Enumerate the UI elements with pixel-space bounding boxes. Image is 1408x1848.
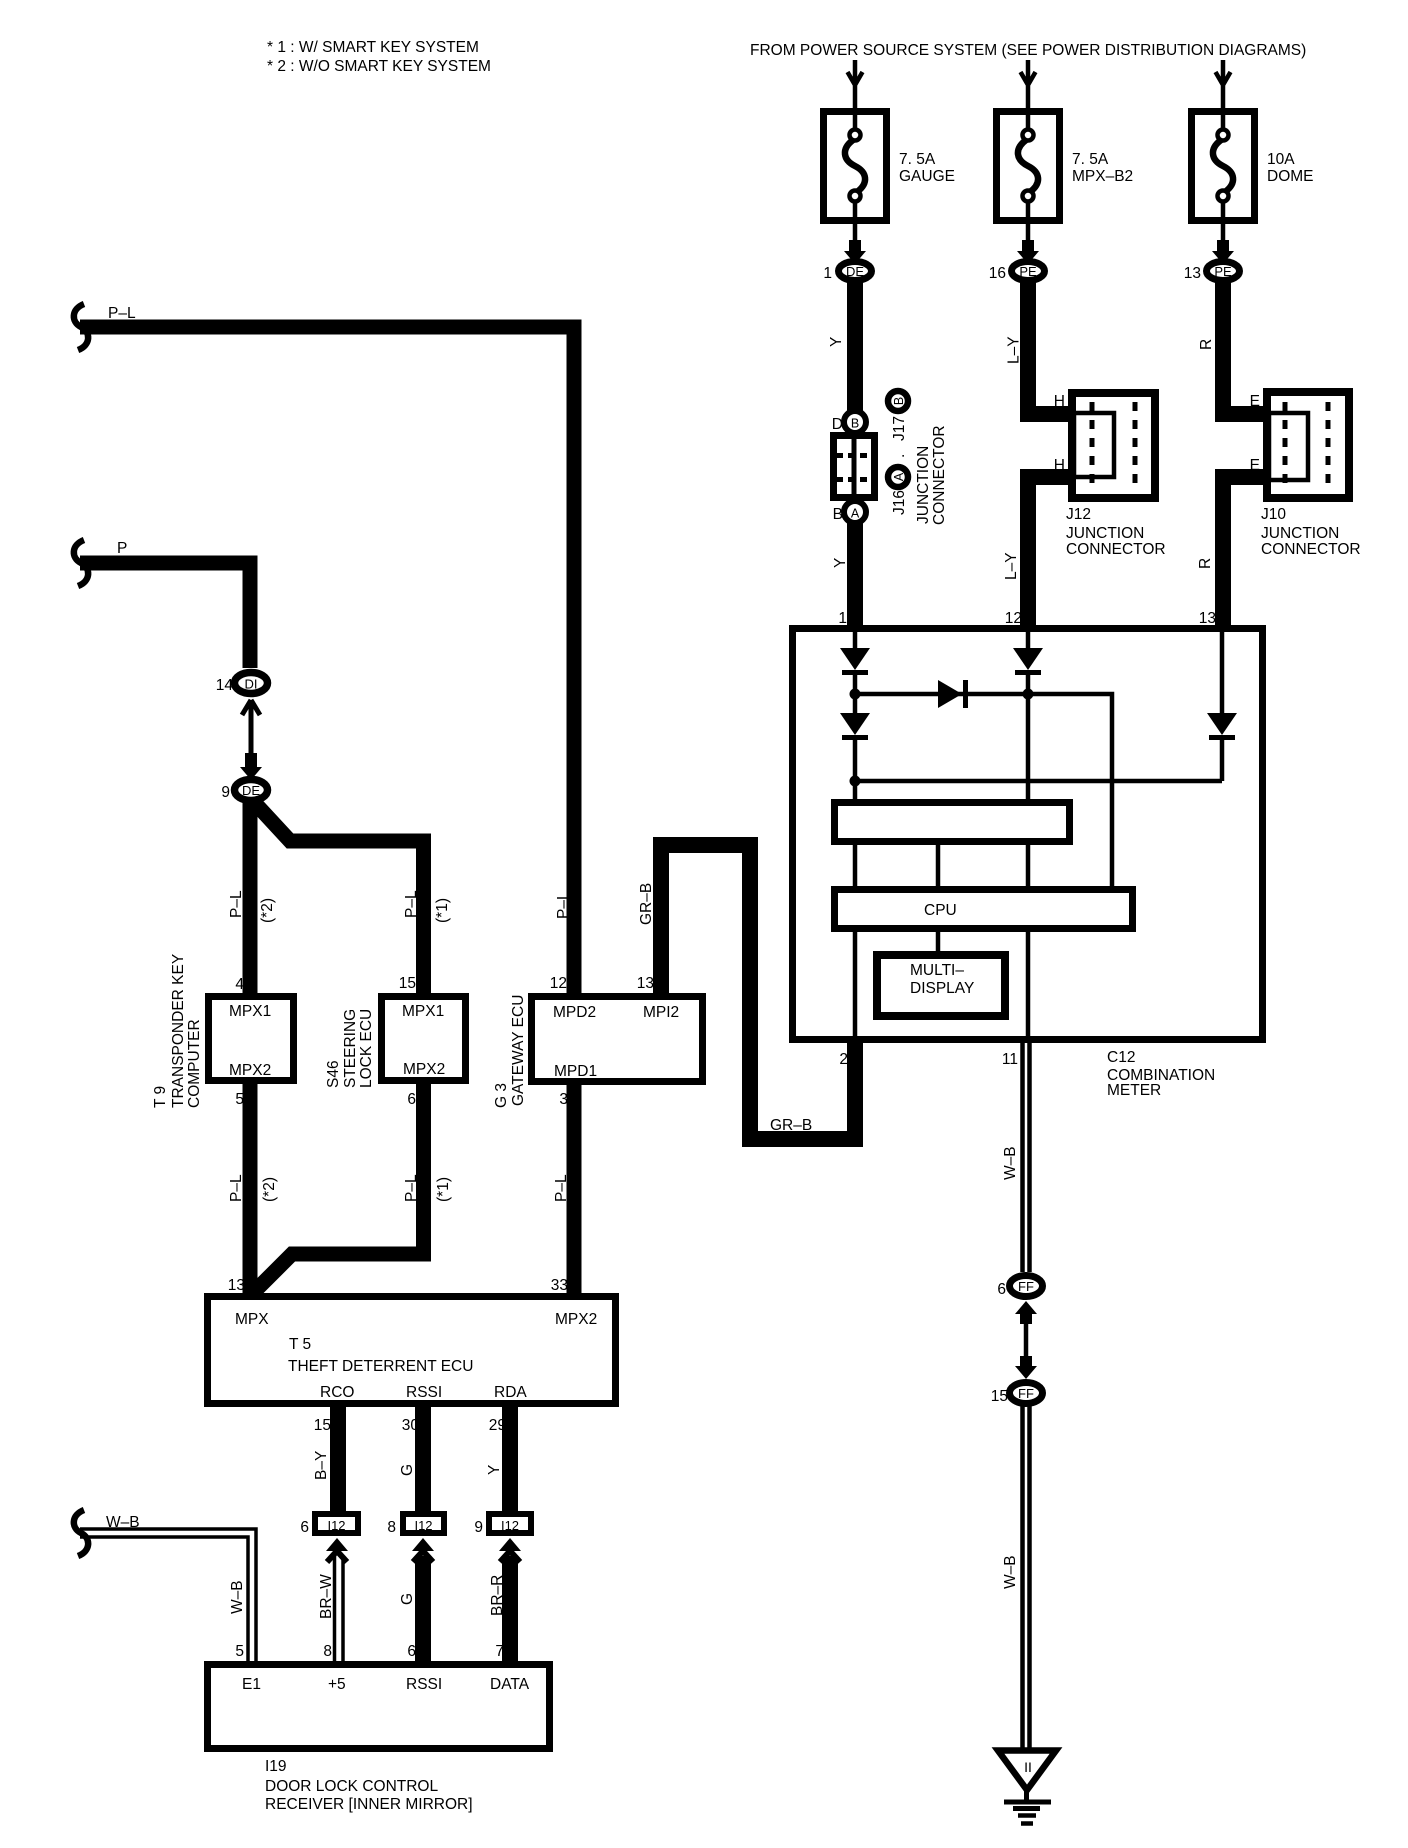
svg-text:7. 5A: 7. 5A [1072,151,1109,168]
svg-text:P–L: P–L [228,890,245,918]
connector PE 16 [1012,262,1045,281]
svg-text:PE: PE [1214,264,1232,279]
note text smart key [267,39,491,75]
svg-text:13: 13 [1199,610,1216,627]
svg-text:LOCK ECU: LOCK ECU [358,1009,375,1088]
diode D5 [1207,713,1237,735]
wire R to J10 and down to meter pin 13 [1223,282,1265,630]
wire P horizontal/vertical [80,563,250,668]
svg-text:RSSI: RSSI [406,1676,442,1693]
svg-text:I19: I19 [265,1758,287,1775]
svg-text:14: 14 [216,677,234,694]
svg-text:J17: J17 [891,416,908,441]
svg-text:6: 6 [300,1519,309,1536]
svg-text:E1: E1 [242,1676,261,1693]
wire DE branch diagonal to S46 pin 15 [253,801,424,993]
svg-text:B: B [851,417,859,431]
svg-text:8: 8 [387,1519,396,1536]
svg-text:MPX2: MPX2 [403,1061,445,1078]
svg-text:CONNECTOR: CONNECTOR [1261,541,1361,558]
svg-text:DISPLAY: DISPLAY [910,980,974,997]
S46 steering lock ecu box [382,997,466,1081]
fuse 10A DOME [1192,112,1255,221]
junction connector J16/J17 circle A [844,501,866,523]
T5 theft deterrent ecu box [208,1297,616,1404]
wire node1 right [855,694,1112,887]
svg-text:Y: Y [828,337,845,347]
svg-text:P–L: P–L [228,1174,245,1202]
arrow from power source (gauge) [848,60,863,110]
svg-text:DATA: DATA [490,1676,530,1693]
junction connector J12 body [1072,393,1155,498]
connector PE 13 [1207,262,1240,281]
svg-text:GR–B: GR–B [770,1117,812,1134]
svg-text:9: 9 [474,1519,483,1536]
connector I12 no.6 [315,1514,358,1533]
svg-text:B–Y: B–Y [313,1451,330,1480]
svg-text:(*2): (*2) [261,1177,278,1202]
svg-text:G: G [399,1593,416,1605]
wire S46 pin6 down joining [251,1084,424,1295]
svg-text:8: 8 [323,1643,332,1660]
diode D3 [1013,648,1043,670]
svg-text:RCO: RCO [320,1384,354,1401]
svg-text:H: H [1054,393,1065,410]
stub CPU to multi-display [936,932,941,952]
I19 door lock control receiver box [208,1665,550,1749]
svg-text:C12: C12 [1107,1049,1135,1066]
wire pin 1 stub [847,619,863,631]
wire node2 right [855,779,1222,784]
wire between FF connectors [1024,1324,1029,1360]
break symbol P-L [74,304,88,350]
svg-text:4: 4 [235,976,244,993]
svg-text:I12: I12 [414,1518,432,1533]
svg-text:W–B: W–B [229,1580,246,1614]
svg-text:DI: DI [245,677,258,692]
svg-text:METER: METER [1107,1082,1161,1099]
svg-text:FF: FF [1018,1386,1034,1401]
svg-text:15: 15 [991,1388,1008,1405]
CPU block [835,890,1133,929]
svg-text:29: 29 [489,1417,506,1434]
svg-text:E: E [1250,457,1260,474]
junction connector J16/J17 circle B [844,411,866,433]
svg-text:P–L: P–L [108,305,136,322]
svg-text:FROM POWER SOURCE SYSTEM (SEE: FROM POWER SOURCE SYSTEM (SEE POWER DIST… [750,42,1306,59]
svg-text:I12: I12 [501,1518,519,1533]
svg-text:BR–R: BR–R [489,1575,506,1616]
svg-text:MPD2: MPD2 [553,1004,596,1021]
fuse 7.5A GAUGE [824,112,887,221]
svg-text:J12: J12 [1066,506,1091,523]
svg-text:E: E [1250,393,1260,410]
svg-text:B: B [833,506,843,523]
svg-text:2: 2 [839,1051,848,1068]
svg-text:MPX1: MPX1 [229,1003,271,1020]
svg-text:P–L: P–L [555,891,572,919]
svg-text:CONNECTOR: CONNECTOR [931,425,948,525]
svg-text:(*1): (*1) [434,898,451,923]
arrow down into FF 15 [1020,1356,1032,1368]
diode D4 right pointing [938,680,962,708]
diode D1 [840,648,870,670]
svg-text:Y: Y [486,1465,503,1475]
svg-text:TRANSPONDER KEY: TRANSPONDER KEY [170,954,187,1108]
svg-text:GR–B: GR–B [638,883,655,925]
svg-text:JUNCTION: JUNCTION [915,446,932,524]
svg-text:15: 15 [399,975,416,992]
svg-text:MPX1: MPX1 [402,1003,444,1020]
svg-text:THEFT DETERRENT ECU: THEFT DETERRENT ECU [288,1358,473,1375]
svg-text:10A: 10A [1267,151,1295,168]
svg-text:9: 9 [221,784,230,801]
wire gateway pin3 down [567,1085,582,1294]
wires below T5 [330,1404,346,1512]
svg-text:COMPUTER: COMPUTER [186,1019,203,1108]
svg-text:MPX–B2: MPX–B2 [1072,168,1133,185]
arrow into connector PE 13 [1217,240,1229,254]
svg-text:W–B: W–B [106,1514,140,1531]
svg-text:DOME: DOME [1267,168,1314,185]
svg-text:15: 15 [314,1417,331,1434]
svg-text:30: 30 [402,1417,420,1434]
svg-text:R: R [1197,558,1214,569]
svg-text:FF: FF [1018,1279,1034,1294]
svg-text:R: R [1198,339,1215,350]
wire W-B double line from meter pin 11 [1023,1040,1030,1272]
svg-text:G: G [399,1464,416,1476]
wire G thick [415,1556,431,1661]
connector DE 9 [235,780,268,801]
wire T9 pin5 down [243,1084,258,1294]
svg-text:* 2 : W/O SMART KEY SYSTEM: * 2 : W/O SMART KEY SYSTEM [267,58,491,75]
wire Y down to junction connector [847,282,863,412]
svg-text:MULTI–: MULTI– [910,962,964,979]
svg-text:D: D [832,416,843,433]
svg-text:T 5: T 5 [289,1336,311,1353]
diode D2 [840,713,870,735]
svg-text:DE: DE [846,264,864,279]
connector I12 no.8 [403,1514,444,1533]
svg-text:J16: J16 [891,490,908,515]
svg-text:CONNECTOR: CONNECTOR [1066,541,1166,558]
svg-text:GATEWAY ECU: GATEWAY ECU [510,995,527,1106]
svg-text:(*1): (*1) [435,1177,452,1202]
meter box C12 [793,629,1263,1040]
fuse 7.5A MPX-B2 [997,112,1060,221]
svg-text:A: A [851,507,860,521]
node dot 2 [850,776,861,787]
svg-text:Y: Y [832,558,849,568]
junction connector J10 body [1267,392,1349,498]
arrow up into DI [242,700,260,758]
svg-text:1: 1 [823,265,832,282]
svg-text:W–B: W–B [1002,1555,1019,1589]
SECTION: GR-B loop wire pin2 to gateway MPI2 [661,845,855,1139]
svg-text:33: 33 [551,1277,568,1294]
arrow up into FF 6 [1015,1301,1037,1314]
svg-text:T 9: T 9 [152,1086,169,1108]
svg-text:13: 13 [228,1277,245,1294]
svg-text:.: . [891,454,908,458]
connector DI 14 [235,673,268,694]
wire W-B from left double line [80,1529,256,1661]
svg-text:MPI2: MPI2 [643,1004,679,1021]
pin 13 internal [1220,631,1225,715]
svg-text:+5: +5 [328,1676,346,1693]
svg-text:P–L: P–L [553,1174,570,1202]
svg-text:3: 3 [559,1091,568,1108]
svg-text:13: 13 [637,975,654,992]
wire pin 1 internal [853,631,858,650]
connector FF 6 [1010,1276,1043,1297]
connector FF 15 [1010,1383,1043,1404]
svg-text:11: 11 [1002,1051,1018,1068]
ground symbol II [998,1751,1056,1791]
svg-text:A: A [892,472,906,481]
svg-text:MPX: MPX [235,1311,269,1328]
gauge block [835,803,1070,842]
svg-text:(*2): (*2) [259,898,276,923]
connector I12 no.9 [489,1514,531,1533]
svg-text:W–B: W–B [1002,1146,1019,1180]
arrow up into I12 no.9 [499,1538,521,1551]
arrow up into I12 no.8 [412,1538,434,1551]
T9 transponder key computer box [209,997,294,1081]
svg-text:* 1 : W/ SMART KEY SYSTEM: * 1 : W/ SMART KEY SYSTEM [267,39,479,56]
svg-text:DOOR LOCK CONTROL: DOOR LOCK CONTROL [265,1778,438,1795]
node dot 3 [1023,689,1034,700]
svg-text:GAUGE: GAUGE [899,168,955,185]
svg-text:6: 6 [407,1091,416,1108]
wire L-Y to J12 and down to meter pin 12 [1028,282,1070,630]
svg-text:5: 5 [235,1643,244,1660]
wire BR-W double line [335,1556,344,1661]
svg-text:12: 12 [1005,610,1022,627]
svg-text:B: B [892,397,906,405]
svg-text:STEERING: STEERING [342,1009,359,1088]
svg-text:12: 12 [550,975,567,992]
svg-text:P: P [117,540,127,557]
stubs to CPU [855,845,1028,887]
wire Y from junction A to meter pin 1 [847,523,863,630]
svg-text:6: 6 [997,1281,1006,1298]
svg-text:1: 1 [838,610,847,627]
wire DE to T9 pin 4 [243,800,258,993]
svg-text:CPU: CPU [924,902,957,919]
svg-text:PE: PE [1019,264,1037,279]
svg-text:7. 5A: 7. 5A [899,151,936,168]
svg-text:J10: J10 [1261,506,1286,523]
svg-text:BR–W: BR–W [318,1574,335,1619]
svg-text:MPX2: MPX2 [229,1062,271,1079]
svg-text:L–Y: L–Y [1003,552,1020,580]
svg-text:MPX2: MPX2 [555,1311,597,1328]
svg-text:RDA: RDA [494,1384,527,1401]
svg-text:RECEIVER [INNER MIRROR]: RECEIVER [INNER MIRROR] [265,1796,473,1813]
svg-text:6: 6 [407,1643,416,1660]
node dot 1 [850,689,861,700]
connector DE 1 [839,262,872,281]
arrow from power source (mpx-b2) [1021,60,1036,110]
arrow up into I12 no.6 [326,1538,348,1551]
svg-text:13: 13 [1184,265,1201,282]
svg-text:5: 5 [235,1091,244,1108]
pin 12 internal [1026,631,1031,650]
arrow into connector DE 1 [849,240,861,254]
pin2 / pin11 internal [855,932,1028,1036]
junction connector J16/J17 body [834,436,875,498]
svg-text:JUNCTION: JUNCTION [1261,525,1339,542]
multi-display block [877,955,1005,1016]
svg-text:RSSI: RSSI [406,1384,442,1401]
wire pin 12 stub [1020,619,1036,631]
break symbol W-B [74,1510,88,1556]
svg-text:II: II [1024,1759,1032,1775]
svg-text:16: 16 [989,265,1006,282]
svg-text:P–L: P–L [403,1174,420,1202]
arrow from power source (dome) [1216,60,1231,110]
break symbol P [74,540,88,586]
G3 gateway ecu box [532,997,703,1082]
svg-text:MPD1: MPD1 [554,1063,597,1080]
svg-text:I12: I12 [327,1518,345,1533]
wire pin 13 stub [1215,619,1231,631]
arrow down into DE [245,753,257,769]
arrow into connector PE 16 [1022,240,1034,254]
wire BR-R thick [502,1556,518,1661]
svg-text:DE: DE [242,783,260,798]
svg-text:L–Y: L–Y [1006,336,1023,364]
svg-text:S46: S46 [325,1060,342,1088]
svg-text:P–L: P–L [403,890,420,918]
wire W-B double line to ground [1023,1405,1030,1748]
svg-text:7: 7 [495,1643,504,1660]
svg-text:JUNCTION: JUNCTION [1066,525,1144,542]
svg-text:G 3: G 3 [493,1083,510,1108]
svg-text:H: H [1054,457,1065,474]
wire P-L horizontal/vertical [80,327,574,993]
